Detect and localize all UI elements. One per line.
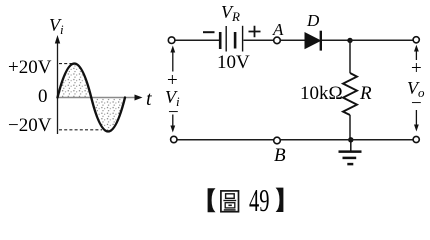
- node terminal top-left: [168, 37, 175, 44]
- label VR: [221, 2, 240, 25]
- wire diode to junction: [322, 39, 350, 41]
- label +20V: [8, 57, 51, 79]
- wire junction down to resistor: [349, 40, 351, 73]
- label -20V: [8, 115, 51, 137]
- node Vi-axis: [57, 41, 59, 134]
- ground: [339, 140, 362, 164]
- wire resistor to bottom junction: [349, 115, 351, 140]
- label 0: [38, 86, 48, 108]
- label A: [273, 20, 283, 40]
- caption bracket left: [208, 188, 216, 212]
- wire node B to ground junction: [280, 139, 350, 141]
- wire dashed +20V level: [59, 63, 74, 65]
- label Vi polarity minus: [168, 102, 179, 124]
- wire dashed -20V level: [59, 129, 102, 131]
- battery plus sign: [249, 26, 261, 38]
- wire junction to top-right terminal: [350, 39, 413, 41]
- diode D: [305, 33, 320, 49]
- wire Vo polarity arrow up: [415, 50, 417, 60]
- label Vo polarity plus: [411, 58, 422, 80]
- battery minus sign: [203, 31, 215, 33]
- label B: [274, 145, 286, 167]
- node junction bottom: [348, 137, 353, 142]
- node Vi-waveform: sine fill: [58, 64, 126, 132]
- label D: [307, 11, 319, 31]
- battery VR: [220, 26, 242, 52]
- label R: [360, 83, 372, 105]
- wire battery to node A: [244, 39, 274, 41]
- label Vo polarity minus: [411, 93, 422, 115]
- node junction top: [347, 38, 352, 43]
- node terminal bottom-left: [171, 136, 177, 142]
- caption glyph tu (figure): [221, 191, 239, 212]
- resistor R: [343, 73, 357, 115]
- node terminal top-right: [413, 37, 419, 43]
- caption bracket right: [276, 188, 284, 212]
- label Vi axis: [49, 15, 64, 38]
- node A: [274, 37, 281, 44]
- label Vi polarity plus: [167, 70, 178, 92]
- label t axis: [146, 88, 152, 111]
- label Vo output: [407, 78, 425, 101]
- node terminal bottom-right: [413, 136, 419, 142]
- node B: [274, 137, 281, 144]
- node sine curve: [58, 64, 126, 132]
- wire Vo polarity arrow down: [415, 110, 417, 126]
- label 10V: [217, 52, 250, 74]
- wire ground junction to bottom-right terminal: [351, 139, 413, 141]
- label 10k ohm: [300, 83, 343, 105]
- caption number 49: [249, 182, 269, 219]
- wire node A to diode: [280, 39, 305, 41]
- wire top: left terminal to battery: [175, 39, 219, 41]
- node t-axis: [58, 97, 137, 99]
- label Vi source: [165, 87, 180, 110]
- wire Vi polarity arrow down: [172, 115, 174, 128]
- wire bottom: left terminal to node B: [177, 139, 274, 141]
- wire Vi polarity arrow up: [172, 51, 174, 72]
